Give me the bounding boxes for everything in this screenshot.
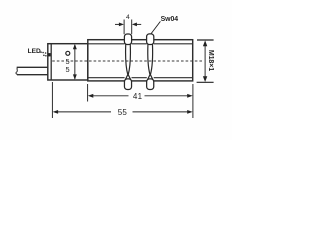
nut N1 bottom cap xyxy=(124,79,131,90)
cable xyxy=(16,67,18,74)
M18 dim bottom extension xyxy=(197,81,214,83)
M18 dim line xyxy=(204,42,206,81)
nut N2 waist sides xyxy=(148,44,153,80)
svg-text:4: 4 xyxy=(126,14,130,21)
svg-text:LED: LED xyxy=(28,48,41,55)
svg-text:5: 5 xyxy=(65,65,69,74)
Sw04 leader xyxy=(151,21,160,33)
dim 55 xyxy=(53,110,59,114)
dim 4 right arrow xyxy=(136,23,141,25)
LED leader dots xyxy=(40,51,50,56)
dim 4 left arrow xyxy=(115,23,121,25)
threaded barrel xyxy=(88,40,193,81)
dim 41 xyxy=(88,94,94,98)
svg-text:Sw04: Sw04 xyxy=(161,16,179,23)
ext line right xyxy=(192,84,194,118)
svg-text:41: 41 xyxy=(133,92,143,101)
svg-text:M18×1: M18×1 xyxy=(207,50,214,71)
ext line mid (41) xyxy=(87,84,89,102)
centerline xyxy=(52,60,203,62)
phi symbol of diameter label xyxy=(66,51,70,55)
diameter label digits xyxy=(65,57,69,74)
phi dim line xyxy=(74,45,76,79)
dim 4 extension lines xyxy=(123,20,125,35)
gland inner line xyxy=(50,44,52,80)
nut N2 bottom cap xyxy=(147,79,154,90)
nut N1 waist sides xyxy=(125,44,130,80)
thread inner line top xyxy=(88,43,193,45)
thread inner line bottom xyxy=(88,77,193,79)
svg-text:55: 55 xyxy=(118,108,128,117)
rear body (left rectangle) xyxy=(48,44,88,80)
ext line left (55) xyxy=(51,82,53,118)
M18 dim top extension xyxy=(197,39,214,41)
nut N2 top cap xyxy=(147,34,154,45)
nut N1 top cap xyxy=(124,34,131,45)
